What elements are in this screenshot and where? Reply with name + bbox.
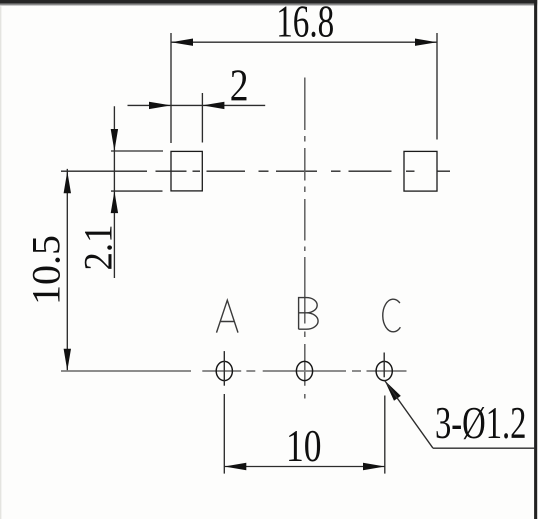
dim 10.5 dimension line (66, 169, 68, 371)
vertical center line (304, 78, 306, 399)
leader arrowhead at hole C (385, 380, 401, 400)
dim 10 right arrowhead (363, 463, 385, 470)
hole C vertical crosshair (383, 353, 385, 378)
dim 2 right extension line (201, 93, 203, 143)
right pad square (404, 151, 437, 191)
hole B (296, 361, 312, 380)
dim 2 dimension line (128, 104, 266, 106)
dim 2 left arrowhead (149, 102, 171, 109)
horizontal center line through squares (also 10.5 top extension) (61, 170, 450, 172)
hole A (216, 361, 232, 380)
label C (383, 299, 401, 332)
svg-text:10: 10 (286, 420, 322, 471)
left pad square (171, 151, 202, 191)
dim 2 right arrowhead (202, 102, 224, 109)
svg-text:16.8: 16.8 (276, 0, 334, 47)
square bottom edge extension (for 2.1) (111, 190, 163, 192)
label A (217, 300, 239, 332)
dim 10 right extension line (384, 396, 386, 474)
dim 10 left extension line (223, 394, 225, 474)
svg-text:10.5: 10.5 (24, 235, 69, 305)
dim 10 left arrowhead (224, 463, 246, 470)
svg-text:2.1: 2.1 (76, 225, 121, 271)
dim 10.5 top arrowhead (64, 171, 71, 193)
leader diagonal line (385, 380, 433, 448)
hole C (376, 361, 392, 380)
square top edge extension (for 2.1) (111, 150, 163, 152)
dim 16.8 left arrowhead (171, 39, 193, 46)
label B (299, 298, 319, 330)
dim 16.8 left extension line (170, 33, 172, 143)
dim 2.1 bottom arrowhead (111, 191, 118, 213)
right border bar (534, 0, 537, 519)
dim 10.5 bottom arrowhead (64, 349, 71, 371)
hole A vertical crosshair (223, 351, 225, 386)
dim 2.1 top arrowhead (111, 129, 118, 151)
dim 10.5 bottom extension line (61, 370, 191, 372)
svg-text:2: 2 (230, 59, 249, 110)
dim 16.8 right extension line (436, 33, 438, 140)
left faint edge (0, 0, 2, 519)
dim 10 dimension line (224, 466, 385, 468)
dim 16.8 dimension line (171, 41, 437, 43)
leader horizontal line (433, 447, 535, 449)
dim 2.1 dimension line (113, 106, 115, 278)
hole line (y=371) segments between holes (202, 370, 406, 372)
dim 16.8 right arrowhead (415, 39, 437, 46)
svg-text:3-Ø1.2: 3-Ø1.2 (435, 397, 527, 448)
